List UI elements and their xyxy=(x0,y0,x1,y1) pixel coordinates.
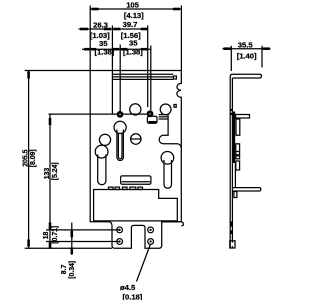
dim 26.3 arrow outside-left xyxy=(80,28,88,31)
plate left edge xyxy=(89,71,91,223)
extension line y=241.5 xyxy=(46,241,120,243)
dim 133 line xyxy=(49,114,51,249)
striped block xyxy=(159,114,169,116)
dim 35/35 line xyxy=(82,48,151,50)
svg-text:[4.13]: [4.13] xyxy=(124,11,144,20)
hole circle row1 right xyxy=(160,104,171,115)
filled dot hole 1 xyxy=(117,111,124,118)
extension line x=112.4 row1 divider xyxy=(111,26,113,114)
dim 39.7 arrow left xyxy=(113,28,120,31)
dim 26.3 / 39.7 line xyxy=(79,28,148,30)
side view top flange xyxy=(230,74,261,78)
keyhole middle: circle xyxy=(114,121,126,133)
svg-text:ø4.5: ø4.5 xyxy=(120,283,136,292)
dim 105 extension line left xyxy=(89,6,91,71)
hole circle row1 left xyxy=(130,104,141,115)
leader line y=114.1 to hole row xyxy=(49,113,150,115)
bottom-right small tab xyxy=(181,222,184,226)
side arm 1 xyxy=(236,115,250,119)
svg-text:39.7: 39.7 xyxy=(123,20,138,29)
dim 35 arrows at divider xyxy=(113,48,119,51)
svg-text:[5.24]: [5.24] xyxy=(52,162,59,180)
hook notch right side xyxy=(159,115,181,148)
extension line y=229.9 xyxy=(46,229,120,231)
svg-text:[1.38]: [1.38] xyxy=(123,47,143,56)
dim 105 arrow right xyxy=(173,8,180,11)
svg-text:35.5: 35.5 xyxy=(238,40,254,49)
plate bottom-left step xyxy=(90,222,112,226)
left slot xyxy=(98,155,106,185)
right keyhole circle xyxy=(161,152,174,165)
svg-text:105: 105 xyxy=(126,0,139,9)
side tab rect 2 xyxy=(236,144,240,155)
svg-text:205.5: 205.5 xyxy=(23,149,30,166)
dim 39.7 arrow right xyxy=(141,28,147,31)
dim 18 line xyxy=(71,223,73,256)
top band triple lines xyxy=(112,73,173,75)
foot hole top-right xyxy=(148,227,154,233)
extension line x=148.2 row1 right xyxy=(147,26,149,108)
svg-text:18: 18 xyxy=(43,231,50,239)
leader ø4.5 xyxy=(137,245,151,282)
svg-text:133: 133 xyxy=(44,168,51,180)
extension line x=120.2 row2 divider xyxy=(119,45,121,112)
keyhole middle: slot xyxy=(117,130,124,161)
side view web xyxy=(229,77,231,249)
svg-text:8.7: 8.7 xyxy=(61,264,68,274)
side view black column xyxy=(233,112,235,164)
extension line x=151.8 row2 right xyxy=(150,46,152,111)
dim 35 arrow right xyxy=(141,48,147,51)
foot outline xyxy=(112,222,181,249)
dim 105 extension line right xyxy=(180,6,182,71)
foot hole bottom-right xyxy=(148,239,154,245)
side web ticks xyxy=(230,222,233,227)
svg-text:[0.71]: [0.71] xyxy=(52,226,59,244)
foot hole top-left xyxy=(117,227,123,233)
side bottom cap xyxy=(230,241,235,248)
filled dot hole 2 xyxy=(147,110,154,117)
plate outline top edge xyxy=(90,70,181,72)
foot hole bottom-left xyxy=(117,239,123,245)
dim 26.3 arrow right xyxy=(104,28,111,31)
left reference line y=70.5 xyxy=(25,70,91,72)
wide bar xyxy=(121,176,151,184)
svg-text:[0.34]: [0.34] xyxy=(69,261,76,279)
side web weld marks xyxy=(230,109,232,111)
plate right edge with scallops xyxy=(177,71,181,222)
dim 205.5 line xyxy=(28,71,30,248)
side tab rect 1 xyxy=(236,119,240,135)
svg-text:[1.40]: [1.40] xyxy=(237,51,257,60)
main bottom edge segments xyxy=(162,221,181,223)
small square hole upper right xyxy=(174,76,177,79)
ticks on R1 xyxy=(109,187,114,189)
dim 35 arrow outside-left xyxy=(84,48,89,51)
side small tab below arm2 xyxy=(234,192,237,198)
svg-text:[0.18]: [0.18] xyxy=(123,292,143,300)
thin rect R1 xyxy=(94,190,178,221)
svg-text:26.3: 26.3 xyxy=(93,20,108,29)
svg-text:[8.09]: [8.09] xyxy=(30,149,37,167)
screw symbol xyxy=(131,134,141,144)
pad below dot2 xyxy=(147,116,157,123)
side view dim 35.5 xyxy=(230,46,232,71)
right slot xyxy=(164,160,172,188)
svg-text:[1.38]: [1.38] xyxy=(95,48,115,57)
small square hole lower right xyxy=(174,105,176,108)
dim 105 arrow left xyxy=(92,8,99,11)
side arm 2 xyxy=(233,188,261,191)
left circle small xyxy=(99,134,110,145)
svg-text:35: 35 xyxy=(129,39,138,48)
side column outline lower xyxy=(234,163,236,188)
extension line y=248.2 bottom xyxy=(25,247,112,249)
dim 105 line xyxy=(90,8,181,10)
left circle large xyxy=(95,145,108,158)
